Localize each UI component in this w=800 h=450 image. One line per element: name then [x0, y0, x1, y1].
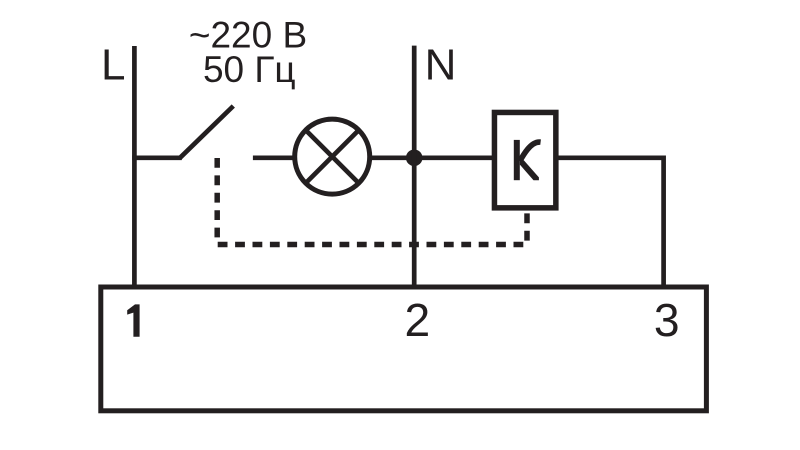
wire: lamp to relay coil K	[370, 155, 493, 160]
lamp HL1	[295, 119, 370, 194]
terminal 1 pin label	[127, 304, 139, 336]
relay coil K value label	[514, 140, 541, 180]
wire: L to switch hinge	[132, 155, 182, 160]
wire: relay K to terminal 3	[558, 158, 664, 288]
wire: switch contact to lamp	[253, 155, 294, 160]
svg-text:3: 3	[654, 294, 680, 346]
svg-text:N: N	[425, 40, 457, 89]
switch S1 blade	[180, 106, 233, 158]
svg-text:L: L	[101, 41, 125, 90]
wire: phase L vertical (terminal 1)	[132, 46, 137, 288]
svg-text:2: 2	[404, 294, 430, 346]
terminal block body	[101, 287, 707, 411]
relay coil K box	[494, 112, 555, 207]
dashed mechanical linkage switch to relay	[217, 158, 527, 245]
wire: neutral N vertical (terminal 2)	[412, 46, 417, 288]
junction node (terminal 2)	[406, 150, 423, 167]
svg-text:50 Гц: 50 Гц	[203, 49, 296, 90]
